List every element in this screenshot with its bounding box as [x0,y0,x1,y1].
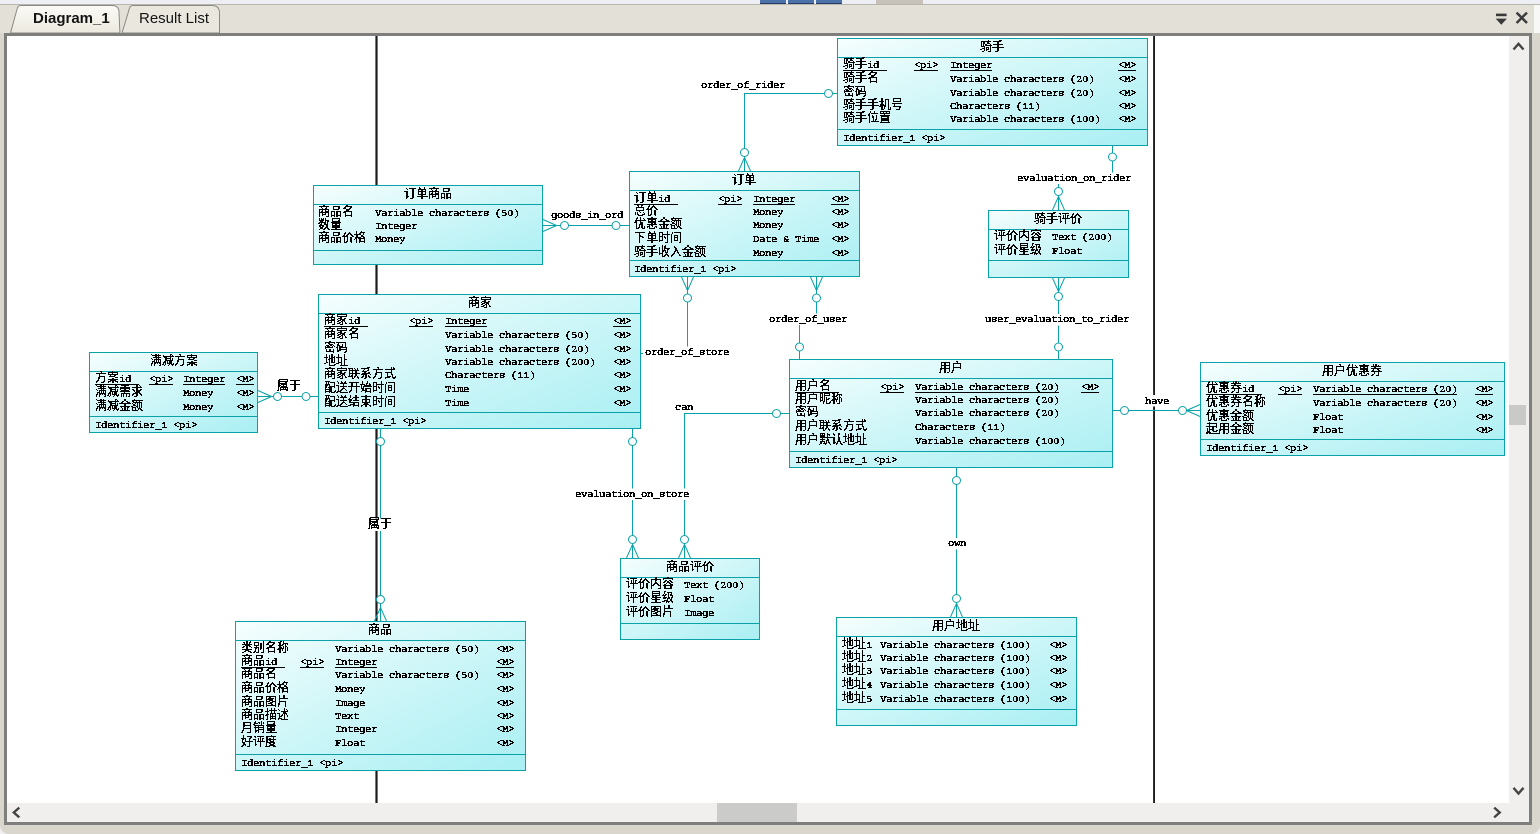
entity 订单 [630,172,860,277]
relationship own [951,468,963,617]
relationship have [1113,405,1200,417]
horizontal scrollbar [7,803,1529,822]
label 属于 [366,519,394,532]
icon close [1513,9,1531,27]
relationship belongs_goods [375,429,387,621]
toolbar blue button 3 [816,0,842,4]
label evaluation_on_rider [1015,173,1133,185]
relationship evaluation_on_rider [1053,146,1117,210]
vertical scrollbar thumb [1509,405,1526,425]
entity 商家 [319,295,641,429]
toolbar blue button 1 [760,0,786,4]
label goods_in_ord [549,210,625,222]
vertical scrollbar [1509,36,1529,803]
page boundary line 1 [375,36,377,803]
label have [1143,395,1171,407]
tab Result List [122,6,220,34]
label user_evaluation_to_rider [983,314,1131,326]
label order_of_store [643,347,731,359]
entity 用户优惠券 [1201,363,1505,456]
toolbar gray tab remnant [876,0,923,4]
entity 用户 [790,360,1113,468]
tab bar [0,5,1540,33]
entity 商品 [236,622,526,771]
diagram text [96,40,1493,768]
entity 订单商品 [314,186,543,265]
label order_of_user [767,314,849,326]
label own [946,538,968,550]
primary key underlines [95,70,1493,668]
toolbar bottom edge [0,4,1540,5]
toolbar strip (cut off) [0,0,1540,5]
toolbar blue button 2 [788,0,814,4]
relationship goods_in_ord [543,220,629,232]
label can [673,402,695,414]
relationship belongs_scheme [258,391,318,403]
entity 用户地址 [837,618,1077,726]
entity 骑手评价 [989,211,1129,278]
relationship user_evaluation_to_rider [1053,278,1065,359]
page boundary line 2 [1153,36,1155,803]
label order_of_rider [699,79,787,91]
relationship evaluation_on_store [627,429,639,558]
entity 骑手 [838,39,1148,146]
tab Diagram_1 (active) [11,6,120,34]
entity 满减方案 [90,353,258,433]
label evaluation_on_store [573,489,691,501]
relationship can [679,410,790,559]
relationship order_of_store [641,277,694,354]
label 属于 [275,380,303,393]
horizontal scrollbar thumb [717,803,797,822]
icon scroll-tabs [1494,11,1510,27]
relationship order_of_user [796,277,823,359]
relationship order_of_rider [739,90,838,172]
entity 商品评价 [621,559,760,640]
